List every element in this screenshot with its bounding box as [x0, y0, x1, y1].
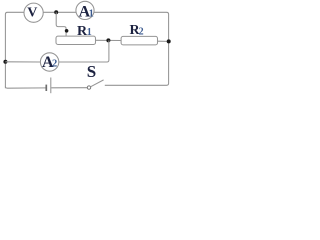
voltmeter V: [24, 3, 43, 22]
ammeter A2: [40, 53, 58, 71]
battery cell: short plate (negative): [45, 85, 47, 91]
resistor R1: [56, 24, 96, 45]
node: junction dot above R1: [65, 29, 69, 33]
wire: voltmeter to node A (top junction) to ammeter A1: [43, 11, 76, 13]
node C: junction dot on right rail: [167, 39, 171, 43]
svg-text:2: 2: [52, 59, 57, 70]
node B: junction dot between R1 and R2: [106, 38, 110, 42]
ammeter A1: [76, 1, 94, 20]
svg-text:1: 1: [89, 9, 94, 20]
background: [0, 0, 174, 95]
wire: R2 to right rail: [158, 40, 169, 42]
node D: junction dot on left rail: [3, 60, 7, 64]
switch S: blade: [91, 80, 104, 87]
switch S: pivot circle: [87, 86, 90, 89]
wire: left rail + top-left segment to voltmeter: [5, 12, 24, 88]
svg-text:S: S: [87, 62, 96, 81]
svg-text:2: 2: [139, 27, 144, 38]
wire: R1 to R2: [96, 39, 122, 41]
svg-text:V: V: [27, 6, 37, 21]
wire: branch from node B down and left to ammeter A2: [59, 40, 109, 62]
wire: ammeter A1 to top-right corner and right rail down to bottom-right corner: [94, 12, 169, 85]
node A: junction dot on top wire: [54, 10, 58, 14]
svg-text:1: 1: [87, 27, 92, 38]
resistor R2: [121, 23, 157, 45]
wire: bottom-left corner to battery: [5, 86, 46, 88]
wire: battery to switch pivot: [51, 87, 87, 89]
wire: left rail to ammeter A2: [5, 61, 40, 63]
battery cell: long plate (positive): [50, 78, 52, 94]
wire: jog from node A down to resistor R1 top: [56, 12, 66, 36]
